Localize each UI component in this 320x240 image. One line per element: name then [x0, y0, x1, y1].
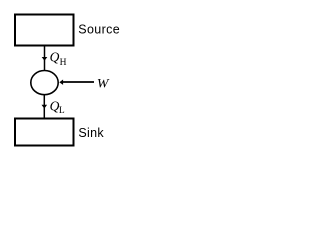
engine circle: [31, 71, 58, 95]
svg-text:W: W: [97, 75, 110, 90]
label QH: [50, 50, 67, 68]
arrowhead W (into circle): [59, 80, 63, 85]
arrowhead QL: [42, 105, 48, 109]
wire W (work input): [63, 81, 94, 83]
svg-text:L: L: [59, 106, 65, 116]
wire QL (engine to sink): [43, 95, 45, 118]
sink reservoir box: [15, 119, 74, 146]
svg-text:Q: Q: [50, 50, 60, 65]
svg-text:Source: Source: [78, 22, 120, 36]
label QL: [50, 99, 65, 116]
svg-text:H: H: [60, 58, 67, 68]
source reservoir box: [15, 15, 74, 46]
wire QH (source to engine): [44, 46, 46, 70]
svg-text:Sink: Sink: [78, 126, 104, 140]
arrowhead QH: [42, 57, 48, 61]
